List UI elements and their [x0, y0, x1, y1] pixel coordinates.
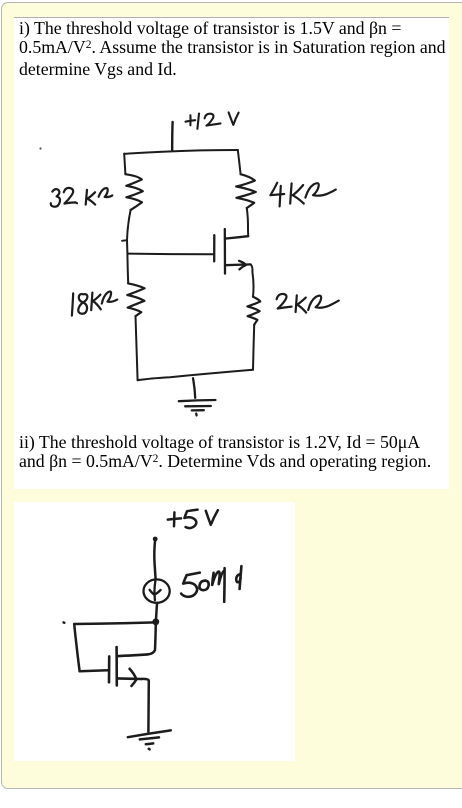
- node +12V supply label: [186, 112, 239, 128]
- current source I1 value label 50uA: [181, 566, 241, 602]
- wire +12V supply stub: [171, 122, 174, 151]
- transistor M1: [214, 229, 250, 274]
- ground (circuit 2): [128, 730, 171, 749]
- wire current source to node A: [156, 604, 157, 620]
- current source I1: [144, 579, 170, 603]
- white panel for problem i: [14, 17, 449, 489]
- resistor R2 18k zigzag: [127, 283, 144, 316]
- resistor R1 32k zigzag: [125, 174, 142, 210]
- wire source (M2 source down to ground): [141, 679, 149, 732]
- problem i text: [19, 19, 462, 79]
- wire source vertical (M1 source to R4): [251, 264, 254, 296]
- transistor M2: [109, 647, 148, 686]
- ground (circuit 1): [179, 400, 216, 415]
- wire pen-lift tick at node: [122, 239, 127, 242]
- resistor R3 4k zigzag: [236, 174, 256, 208]
- wire gate feedback loop: [64, 622, 156, 671]
- stray dot (left of circuit 1): [39, 147, 41, 149]
- resistor R3 value label 4k: [270, 183, 335, 207]
- resistor R4 value label 2k: [277, 294, 339, 313]
- problem ii text: [19, 433, 462, 474]
- wire gate: [127, 253, 213, 256]
- wire source bottom (R4 to bottom rail): [253, 325, 254, 370]
- wire bottom rail: [138, 370, 253, 380]
- node +5V supply label: [168, 510, 218, 529]
- wire right top (rail corner down to R3): [238, 150, 241, 174]
- wire supply stub (dot + lead into current source): [153, 537, 158, 580]
- resistor R1 value label 32k: [51, 188, 113, 207]
- node A junction dot: [152, 618, 159, 625]
- wire ground stub: [193, 378, 195, 398]
- white panel for problem ii: [14, 502, 295, 761]
- resistor R4 2k zigzag: [247, 297, 260, 325]
- wire left mid (R1 bottom to gate node to R2 top): [127, 210, 131, 283]
- wire drain (node A down to M2 drain): [148, 622, 156, 655]
- wire left bottom (R2 to bottom rail): [136, 316, 138, 380]
- resistor R2 value label 18k: [72, 291, 117, 315]
- wire left top (rail corner down to R1): [124, 154, 125, 174]
- wire drain vertical (R3 to drain corner): [247, 208, 248, 236]
- wire top rail: [124, 150, 238, 154]
